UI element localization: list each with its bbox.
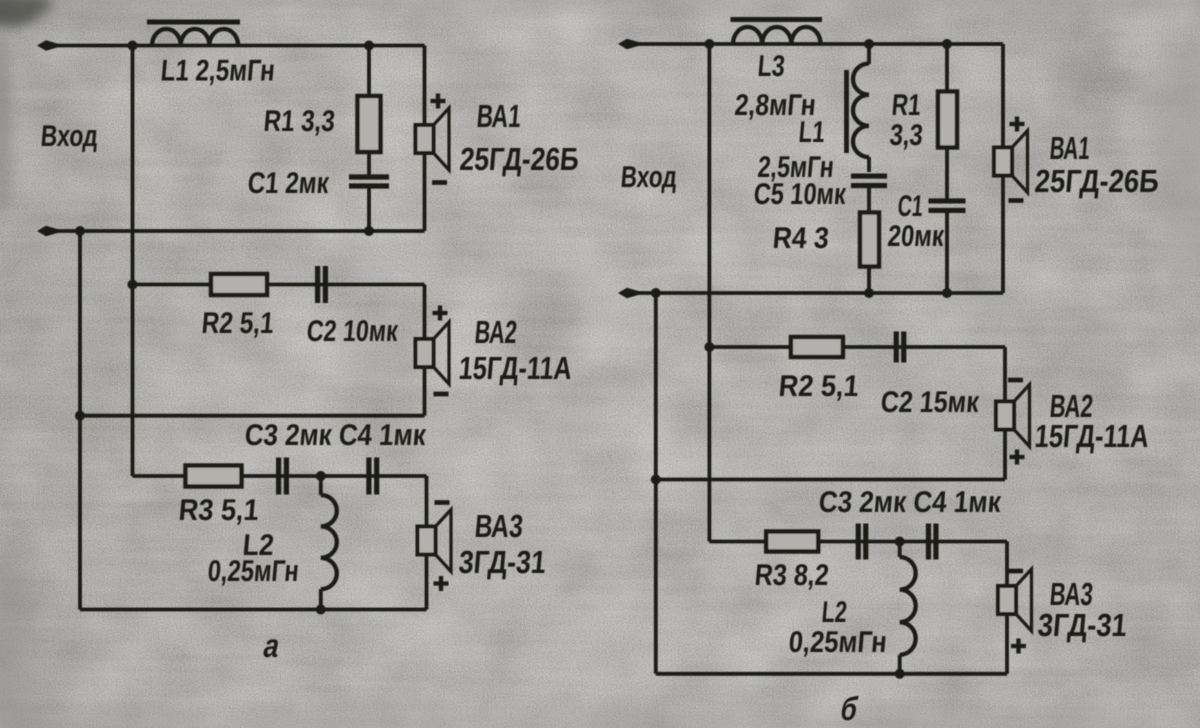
wire midrange branch (circuit a) [133,285,425,341]
wire BA3 bottom lead (circuit b) [1005,614,1009,674]
junction node R1/C1 top (circuit a) [364,41,374,51]
junction L2 return (circuit a) [316,605,326,615]
svg-text:R2 5,1: R2 5,1 [777,370,860,403]
resistor R4 (circuit b) [860,213,879,267]
loudspeaker BA3 (circuit a) [418,527,436,555]
resistor R2 (circuit a) [211,274,267,295]
wire BA2 return (circuit a) [80,414,425,418]
svg-text:0,25мГн: 0,25мГн [206,555,300,588]
inductor L1 (circuit a) [152,29,238,46]
inductor L2 (circuit a) [321,495,337,589]
wire return vertical (circuit a) [78,231,82,610]
svg-text:3,3: 3,3 [888,119,924,152]
svg-text:C1 2мк: C1 2мк [246,167,331,200]
svg-text:ВА3: ВА3 [473,508,524,544]
inductor L1 core bar (circuit a) [147,20,240,25]
svg-text:3ГД-31: 3ГД-31 [1036,607,1128,643]
plus mark BA3 (circuit b) [1011,639,1026,654]
capacitor C5 (circuit b) [851,176,887,186]
junction feed to R2 branch (circuit b) [704,342,714,352]
loudspeaker BA1 (circuit a) [416,125,434,153]
svg-text:Вход: Вход [39,120,99,153]
wire BA3 bottom lead (circuit a) [425,554,429,610]
svg-text:C2 15мк: C2 15мк [879,386,981,419]
junction C1 return node (circuit a) [364,226,374,236]
resistor R3 (circuit b) [766,532,818,552]
inductor L1 core bar vertical (circuit b) [844,70,849,153]
junction input+ tap node (circuit a) [128,41,138,51]
loudspeaker BA2 (circuit b) [996,402,1014,430]
junction L2 tap (circuit b) [895,537,905,547]
junction return rail left (circuit a) [75,226,85,236]
junction return rail left (circuit b) [651,288,661,298]
wire R4 bottom lead (circuit b) [867,267,871,294]
svg-text:C2 10мк: C2 10мк [305,315,400,348]
wire L1-C5 lead (circuit b) [867,157,871,172]
capacitor C1 (circuit a) [349,177,389,186]
capacitor C3 (circuit b) [858,524,866,560]
svg-text:Вход: Вход [619,161,678,194]
svg-text:L1: L1 [797,116,826,149]
svg-text:R3 5,1: R3 5,1 [177,494,260,527]
svg-text:R4 3: R4 3 [771,222,830,255]
svg-text:3ГД-31: 3ГД-31 [457,544,547,580]
capacitor C1 (circuit b) [929,201,966,211]
svg-text:ВА1: ВА1 [475,98,522,134]
wire midrange branch (circuit b) [709,347,1005,403]
minus mark BA3 (circuit a) [435,500,450,505]
svg-text:R1: R1 [890,89,922,122]
wire C5-R4 lead (circuit b) [867,186,871,214]
loudspeaker BA3 (circuit b) [998,586,1016,614]
wire bottom return rail (circuit a) [80,608,427,612]
wire tweeter branch (circuit a) [133,476,427,528]
svg-text:ВА2: ВА2 [473,314,518,350]
wire BA2 return (circuit b) [656,478,1005,482]
wire L2 top lead (circuit a) [319,476,323,495]
svg-text:R2 5,1: R2 5,1 [200,307,275,340]
plus mark BA3 (circuit a) [434,576,449,591]
junction feed to R2 branch (circuit a) [128,280,138,290]
input terminal arrow (upper, circuit a) [37,40,58,50]
minus mark BA1 (circuit a) [432,180,447,185]
resistor R1 (circuit b) [938,92,957,148]
capacitor C3 (circuit a) [279,458,287,495]
inductor L1 vertical (circuit b) [853,64,869,158]
wire BA2 bottom lead (circuit a) [423,366,427,416]
minus mark BA2 (circuit a) [434,392,449,397]
junction BA2 return (circuit b) [651,475,661,485]
wire return vertical (circuit b) [654,293,658,674]
svg-text:С3 2мк С4 1мк: С3 2мк С4 1мк [817,486,1003,519]
capacitor C2 (circuit a) [318,266,326,303]
input terminal arrow (lower, circuit a) [37,226,58,236]
junction R4 return (circuit b) [864,288,874,298]
svg-text:L1 2,5мГн: L1 2,5мГн [159,55,276,88]
svg-text:20мк: 20мк [886,220,946,253]
wire feed vertical (circuit b) [708,44,712,542]
minus mark BA2 (circuit b) [1008,378,1023,383]
wire R1-C1 lead (circuit b) [945,148,949,202]
wire tweeter branch (circuit b) [709,542,1007,588]
wire feed vertical (circuit a) [131,46,135,477]
wire L2 top lead (circuit b) [898,542,902,558]
junction L2 tap (circuit a) [316,471,326,481]
junction BA2 return (circuit a) [75,411,85,421]
wire second rail input- (circuit b) [621,291,1003,295]
minus mark BA3 (circuit b) [1008,569,1023,574]
plus mark BA2 (circuit a) [433,306,448,321]
wire R1-C1 lead (circuit a) [367,152,371,177]
inductor L3 core bar (circuit b) [731,17,823,22]
plus mark BA2 (circuit b) [1010,450,1025,465]
svg-text:25ГД-26Б: 25ГД-26Б [458,141,580,177]
plus mark BA1 (circuit a) [431,94,446,109]
svg-text:С1: С1 [896,190,924,223]
wire R1 top lead (circuit a) [367,46,371,99]
wire top rail circuit b [621,42,1003,46]
wire top rail circuit a [40,44,425,48]
capacitor C4 (circuit a) [369,458,377,495]
svg-text:L2: L2 [820,596,848,629]
svg-text:0,25мГн: 0,25мГн [787,626,888,659]
resistor R1 (circuit a) [358,96,381,152]
capacitor C2 (circuit b) [896,332,904,363]
wire L2 bottom lead (circuit a) [319,589,323,609]
resistor R2 (circuit b) [791,337,843,357]
wire C1 bottom lead (circuit b) [945,211,949,294]
input terminal arrow (lower, circuit b) [618,288,639,298]
svg-text:С3 2мк С4 1мк: С3 2мк С4 1мк [243,419,428,452]
svg-text:25ГД-26Б: 25ГД-26Б [1033,163,1160,199]
svg-text:15ГД-11А: 15ГД-11А [457,350,573,386]
wire BA2 bottom lead (circuit b) [1003,429,1007,480]
wire BA1 branch (circuit b) [1001,44,1005,293]
capacitor C4 (circuit b) [928,524,936,560]
junction input+ tap node (circuit b) [704,39,714,49]
junction R1 branch top (circuit b) [942,39,952,49]
inductor L3 (circuit b) [733,27,821,44]
input terminal arrow (upper, circuit b) [618,39,639,49]
svg-text:R1 3,3: R1 3,3 [262,105,336,138]
junction L1 branch top (circuit b) [864,39,874,49]
wire second rail input- (circuit a) [40,229,425,233]
wire bottom return rail (circuit b) [656,672,1007,676]
wire BA1 branch (circuit a) [423,46,427,232]
loudspeaker BA2 (circuit a) [416,339,434,367]
wire R1 top lead (circuit b) [945,44,949,92]
wire L2 bottom lead (circuit b) [898,655,902,674]
svg-text:15ГД-11А: 15ГД-11А [1033,418,1150,454]
loudspeaker BA1 (circuit b) [994,148,1012,176]
resistor R3 (circuit a) [186,466,242,487]
wire C1 bottom lead (circuit a) [367,186,371,231]
svg-text:ВА1: ВА1 [1048,130,1091,166]
svg-text:L3: L3 [756,50,786,83]
inductor L2 (circuit b) [900,557,916,655]
minus mark BA1 (circuit b) [1009,198,1024,203]
junction C1 return (circuit b) [942,288,952,298]
wire L1 top lead (circuit b) [867,44,871,64]
plus mark BA1 (circuit b) [1010,117,1025,132]
junction L2 return (circuit b) [895,669,905,679]
svg-text:С5 10мк: С5 10мк [752,178,848,211]
svg-text:R3 8,2: R3 8,2 [753,559,830,592]
